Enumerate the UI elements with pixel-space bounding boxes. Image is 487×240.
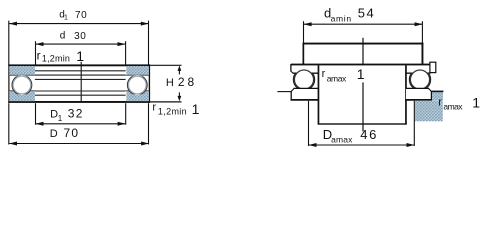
- svg-text:d: d: [60, 31, 66, 42]
- outer rim of shaft washer: [430, 62, 436, 72]
- extension line top right (d1): [148, 21, 150, 65]
- svg-text:r: r: [438, 97, 442, 109]
- Damax extension line right: [413, 101, 415, 146]
- svg-text:1: 1: [357, 66, 365, 82]
- shaft shoulder plate: right edge: [422, 43, 424, 64]
- right section: housing washer: [405, 88, 432, 100]
- bearing right edge: [149, 64, 150, 103]
- left cut: race groove: [12, 75, 32, 95]
- dimension line d: [36, 42, 126, 46]
- dimension line d_amin: [304, 22, 423, 26]
- shaft block bottom edge: [318, 123, 407, 124]
- left housing seat surface line: [277, 91, 291, 93]
- svg-text:32: 32: [68, 106, 84, 120]
- svg-text:amin: amin: [331, 14, 352, 24]
- dimension label D_amax 46: [323, 127, 378, 144]
- svg-text:1,2min: 1,2min: [42, 53, 70, 63]
- svg-text:1: 1: [76, 48, 84, 64]
- shaft shoulder plate: top edge: [303, 43, 424, 45]
- svg-text:46: 46: [360, 127, 378, 142]
- center line of right view: [362, 38, 364, 132]
- H dimension: down arrow: [178, 92, 182, 101]
- svg-text:70: 70: [64, 126, 80, 140]
- dimension label d 30: [60, 31, 87, 42]
- housing (shaded): step right of washer: [432, 92, 443, 101]
- shaft block left edge: [318, 65, 320, 124]
- extension lines D1: [35, 103, 37, 125]
- dimension label d_amin 54: [324, 6, 375, 24]
- shoulder bottom / washer top line: [291, 64, 431, 66]
- label r1,2min (bottom right): [152, 101, 199, 117]
- dimension label D1 32: [50, 106, 84, 122]
- right section: ball: [410, 70, 429, 89]
- shaft block right edge: [405, 65, 407, 124]
- right cut: housing washer section (shaded): [126, 91, 149, 102]
- left cut: housing washer section (shaded): [9, 91, 35, 102]
- svg-text:30: 30: [74, 31, 86, 42]
- H dimension: top extension line: [150, 64, 181, 66]
- svg-text:28: 28: [178, 75, 197, 89]
- label r1,2min (top left): [37, 48, 85, 64]
- extension lines D (below bearing): [8, 103, 10, 144]
- center line of left view: [80, 62, 82, 102]
- bearing left edge: [8, 64, 9, 103]
- left section: race groove arcs: [294, 69, 315, 90]
- right cut: shaft washer section (shaded): [126, 66, 149, 75]
- Damax extension line left: [308, 101, 310, 146]
- extension line right (d): [125, 41, 127, 64]
- right cut: race groove: [127, 75, 147, 95]
- housing (shaded): block under washer: [415, 101, 443, 122]
- svg-text:1: 1: [472, 95, 480, 111]
- svg-text:1: 1: [64, 15, 68, 22]
- extension line left (d): [35, 41, 37, 64]
- svg-text:1: 1: [58, 114, 63, 123]
- bearing bottom face: [8, 101, 150, 103]
- internal projection lines: [35, 71, 126, 95]
- svg-text:1,2min: 1,2min: [158, 106, 187, 116]
- dimension label d1 70: [59, 10, 87, 22]
- left section: ball: [294, 70, 313, 89]
- extension line d_amin right (above shoulder): [421, 21, 423, 43]
- housing step top edge: [431, 91, 443, 93]
- H dimension: bottom extension line: [150, 101, 181, 103]
- svg-text:D: D: [50, 128, 58, 140]
- dimension line d1: [9, 22, 149, 26]
- svg-text:r: r: [37, 48, 41, 62]
- shaft shoulder plate: left edge: [303, 43, 305, 65]
- bearing top face: [8, 64, 150, 66]
- left cut: shaft washer section (shaded): [9, 66, 35, 75]
- svg-text:amax: amax: [331, 135, 353, 145]
- left section: housing washer: [291, 88, 319, 100]
- dimension line D1: [36, 122, 126, 126]
- svg-text:r: r: [152, 102, 156, 114]
- right cut: ball: [129, 76, 147, 94]
- svg-text:amax: amax: [327, 73, 347, 83]
- svg-text:H: H: [166, 77, 174, 89]
- extension line top left (d1): [8, 21, 10, 65]
- svg-text:54: 54: [358, 6, 376, 21]
- dimension line D_amax: [309, 143, 415, 147]
- label r_amax (center): [322, 66, 365, 84]
- H dimension: up arrow: [178, 66, 182, 75]
- right section: shaft washer: [406, 62, 436, 73]
- dimension line D: [9, 142, 149, 146]
- svg-text:amax: amax: [443, 101, 463, 111]
- dimension label D 70: [50, 126, 79, 140]
- right section: race groove arcs: [410, 69, 431, 90]
- svg-text:70: 70: [75, 10, 87, 21]
- H 28 label: [166, 75, 197, 89]
- left cut: ball: [13, 76, 31, 94]
- svg-text:r: r: [322, 68, 326, 80]
- extension line d_amin left (above shoulder): [303, 21, 305, 43]
- svg-text:1: 1: [192, 101, 200, 117]
- left section: shaft washer: [291, 64, 319, 73]
- label r_amax (housing, bottom right): [438, 95, 480, 112]
